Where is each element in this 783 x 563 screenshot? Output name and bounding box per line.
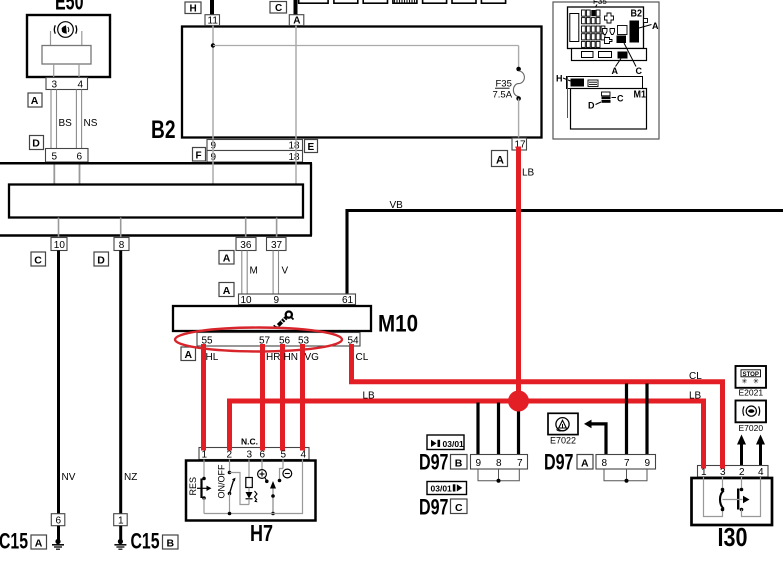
svg-text:61: 61 (342, 295, 354, 306)
black wire to D97B pin 7 (517, 406, 520, 455)
svg-text:NV: NV (62, 472, 76, 483)
connector label A (E50) (28, 93, 42, 107)
component I30 (brake switch relay) (692, 478, 773, 552)
svg-text:A: A (652, 21, 659, 31)
svg-text:6: 6 (260, 450, 266, 461)
pin row 1 2 3 6 5 4 of H7 (199, 448, 309, 461)
connector label A (pins 36/37 lower) (219, 283, 234, 297)
inset: location illustration frame (553, 2, 659, 139)
wire NV (black) (57, 251, 60, 514)
key symbol in M10 (274, 312, 294, 328)
pin row 10 9 61 of M10 (239, 294, 356, 306)
svg-text:9: 9 (274, 295, 280, 306)
svg-text:A: A (581, 457, 589, 469)
svg-text:H: H (556, 74, 563, 84)
horn symbol in E50 (58, 22, 74, 38)
H7 internal: pin1 column + RES switch (188, 460, 212, 514)
pin row 3 4 of E50 (46, 78, 88, 91)
I30 internal contacts (704, 477, 761, 517)
bracket under D97 A (604, 469, 647, 481)
svg-text:A: A (35, 537, 43, 549)
wire NS (double line) (76, 90, 81, 149)
wire to pin 37 (276, 218, 278, 238)
arrow up from I30 pin 2 (737, 435, 746, 467)
validity icon (from 03/01) for D97C (427, 482, 467, 495)
H7 internal: ON/OFF switch (pin 2) (217, 460, 236, 514)
svg-text:1: 1 (118, 516, 124, 527)
svg-text:4: 4 (301, 450, 307, 461)
pin 11 of B2 (205, 15, 220, 27)
internal wire from pin A (295, 26, 297, 141)
svg-text:B2: B2 (151, 116, 176, 144)
svg-text:37: 37 (271, 240, 283, 251)
connector D97 B (419, 450, 528, 475)
top edge connector row (cut off) (299, 0, 506, 3)
svg-text:9: 9 (476, 458, 482, 469)
svg-text:V: V (282, 266, 289, 277)
svg-text:3: 3 (247, 450, 253, 461)
black wire to D97B pin 9 (476, 403, 479, 456)
svg-text:RES: RES (188, 477, 198, 496)
wire LB (red horizontal run) (230, 401, 704, 467)
svg-text:C: C (455, 502, 463, 514)
svg-text:LB: LB (689, 391, 702, 402)
svg-text:H7: H7 (250, 520, 273, 546)
svg-text:18: 18 (289, 152, 301, 163)
svg-text:03/01: 03/01 (431, 484, 453, 494)
svg-text:M10: M10 (378, 311, 418, 338)
svg-text:3: 3 (52, 80, 58, 91)
connector label A (below pin 17) (492, 151, 508, 167)
svg-text:D: D (32, 138, 40, 150)
svg-text:4: 4 (78, 80, 84, 91)
svg-text:M1: M1 (634, 90, 647, 101)
inset: fuse panel B2 (568, 7, 644, 49)
svg-text:ON/OFF: ON/OFF (217, 464, 227, 498)
component M10 (ignition switch) (173, 306, 418, 338)
pin 36 (236, 238, 256, 252)
svg-text:7.5A: 7.5A (493, 90, 513, 101)
wire from pin 5 to junction unit (53, 165, 55, 185)
svg-text:4: 4 (758, 467, 764, 478)
svg-text:A: A (185, 349, 193, 361)
svg-text:E2021: E2021 (739, 387, 764, 397)
svg-text:8: 8 (602, 458, 608, 469)
svg-text:A: A (496, 154, 504, 166)
svg-text:F: F (196, 151, 202, 162)
svg-text:I30: I30 (718, 524, 748, 552)
wire V (double line) (273, 251, 278, 295)
svg-text:HN: HN (284, 352, 298, 363)
svg-text:B: B (167, 537, 175, 549)
inset: M1 lower box (568, 77, 647, 130)
svg-text:1: 1 (202, 450, 208, 461)
svg-text:C15: C15 (131, 529, 160, 554)
connector label B (C15) (163, 535, 179, 549)
svg-text:LB: LB (522, 168, 535, 179)
svg-text:36: 36 (240, 240, 252, 251)
svg-text:D97: D97 (544, 450, 574, 475)
junction band upper bus bar (0, 162, 312, 165)
svg-text:✳: ✳ (742, 378, 748, 386)
component H7 (cruise control switch) (186, 461, 316, 547)
svg-text:10: 10 (241, 295, 253, 306)
svg-text:A: A (612, 66, 619, 76)
H7 internal: minus contact (pin 5) (278, 460, 292, 483)
connector label D (E50) (30, 136, 44, 150)
internal wire to fuse (213, 45, 519, 47)
wire BS (double line) (51, 90, 57, 149)
inset: leader lines to A and C labels (616, 59, 622, 67)
svg-text:D97: D97 (419, 495, 449, 520)
ground C15 A (52, 526, 64, 550)
connector label C (270, 2, 287, 15)
svg-text:7: 7 (624, 458, 630, 469)
svg-text:NS: NS (84, 118, 98, 129)
red wire tips into I30 pin row (704, 464, 723, 469)
wires inside E50 (50, 31, 52, 46)
svg-text:E50: E50 (55, 0, 84, 16)
component B2 (fuse box) (151, 27, 542, 145)
red wire tips into H7 pin row (204, 446, 303, 451)
connector label F (193, 148, 206, 162)
svg-text:2: 2 (739, 467, 745, 478)
connector D97 C (419, 495, 467, 520)
pin 10 (51, 238, 67, 252)
arrow to E7022 (584, 420, 592, 429)
svg-text:HR: HR (266, 352, 280, 363)
inset: side tab (644, 19, 648, 23)
black wire to D97A pin 9 (645, 384, 648, 456)
svg-text:D97: D97 (419, 450, 449, 475)
pin 6 (C15 A) (51, 514, 65, 527)
connector label E (305, 140, 318, 154)
svg-text:6: 6 (56, 516, 62, 527)
inset: M1 upper box (567, 77, 643, 89)
inset: fuse grid (582, 10, 605, 47)
svg-text:F35: F35 (593, 0, 607, 6)
pin 37 (267, 238, 287, 252)
svg-text:LB: LB (363, 391, 376, 402)
pin row 1 3 2 4 of I30 (698, 466, 769, 479)
svg-text:B2: B2 (631, 9, 643, 20)
svg-text:8: 8 (496, 458, 502, 469)
connector label A (C15) (31, 535, 47, 549)
junction band right edge (310, 163, 312, 235)
svg-text:B: B (455, 457, 463, 469)
junction unit body (9, 185, 303, 218)
wire HL (red, M10 pin 55 to H7 pin 1) (201, 344, 206, 450)
H7 internal: resistor + LED (pin 3) (230, 460, 258, 505)
svg-text:C15: C15 (0, 529, 28, 554)
svg-text:A: A (223, 253, 231, 265)
svg-text:BS: BS (59, 118, 73, 129)
wire from pin 6 to junction unit (79, 165, 81, 185)
wire stub H (210, 0, 214, 15)
inset: C label (M1) (612, 94, 625, 104)
wire HN (red, M10 pin 56 to H7 pin 5) (280, 344, 285, 450)
pin 8 (114, 238, 129, 252)
wire LB (red, from B2 pin 17 down to junction) (516, 147, 521, 402)
wire to pin 10 (58, 218, 60, 238)
svg-text:11: 11 (208, 16, 219, 27)
svg-text:C: C (617, 94, 624, 104)
pin A of B2 (289, 15, 304, 27)
svg-text:E: E (308, 142, 315, 153)
inset: relay shapes (603, 13, 628, 44)
inset: label F35 pointer (593, 0, 607, 10)
symbol E2021 (stop lights) (736, 366, 767, 397)
wire HR (red, M10 pin 57 to H7 pin 6) (260, 344, 265, 450)
svg-text:A: A (293, 16, 300, 27)
internal wire from pin 11 (212, 26, 214, 141)
symbol E7020 (brake warning) (736, 401, 767, 434)
svg-text:C: C (275, 3, 282, 14)
svg-text:03/01: 03/01 (443, 439, 465, 449)
wire to pin 8 (120, 218, 122, 238)
svg-text:CL: CL (689, 371, 702, 382)
svg-text:A: A (223, 285, 231, 297)
svg-text:8: 8 (119, 240, 125, 251)
svg-text:M: M (250, 266, 258, 277)
component E7022 symbol (548, 413, 578, 445)
svg-text:HL: HL (206, 352, 219, 363)
inset: H label (556, 74, 571, 84)
inset: connector C (black) (617, 36, 627, 44)
svg-text:1: 1 (701, 467, 707, 478)
svg-text:10: 10 (54, 240, 66, 251)
red highlight ellipse on M10 pins (175, 328, 342, 352)
pin 1 (C15 B) (114, 514, 128, 527)
svg-text:3: 3 (720, 467, 726, 478)
wire VG (red, M10 pin 53 to H7 pin 4) (300, 344, 305, 450)
wire from B2 pin 18 to junction unit (295, 140, 297, 185)
black wire to D97B pin 8 (497, 403, 500, 456)
wire stub C (294, 0, 298, 15)
wire from B2 pin 9 to junction unit (212, 140, 214, 185)
inset: leader line to A (right) (639, 25, 652, 29)
ground C15 B (114, 526, 126, 550)
svg-text:A: A (31, 95, 39, 107)
connector label C (pin 10) (31, 252, 46, 266)
svg-text:D: D (588, 101, 595, 111)
inset: fuse F35 highlighted (black) (591, 10, 596, 16)
svg-text:5: 5 (281, 450, 287, 461)
pin rows 9/18 of B2 (207, 140, 303, 164)
wire NZ (black) (119, 251, 122, 514)
svg-text:STOP: STOP (743, 371, 760, 378)
junction band lower bus bar (0, 234, 312, 237)
H7 internal: plus contact (pin 6) (258, 460, 269, 484)
svg-text:C: C (34, 254, 42, 266)
connector label D (pin 8) (94, 252, 109, 266)
svg-text:E7022: E7022 (550, 436, 576, 446)
internal junction dot B2 (211, 43, 215, 47)
inset: lower flange of fuse panel (572, 49, 647, 61)
connector label A (M10) (181, 347, 196, 361)
svg-text:6: 6 (77, 152, 83, 163)
hatched connector in top row (395, 0, 415, 3)
svg-text:H: H (190, 4, 197, 15)
svg-text:E7020: E7020 (739, 423, 764, 433)
wire M (double line) (242, 251, 247, 295)
black wire to D97A pin 8 (L-shape from E7022 arrow) (590, 424, 606, 455)
component E50 (horn) (27, 0, 110, 78)
pin row 55 57 56 53 54 of M10 (197, 333, 360, 347)
red junction dot (508, 391, 529, 412)
wire CL (red, M10 pin 54 to I30 pin 3) (352, 344, 723, 467)
arrow up from I30 pin 4 (756, 435, 765, 467)
connector D97 A (544, 450, 656, 475)
svg-text:VG: VG (305, 352, 320, 363)
svg-text:D: D (97, 254, 105, 266)
svg-text:2: 2 (227, 450, 233, 461)
inset: D label (M1) (588, 101, 601, 111)
validity icon (until 03/01) for D97B (427, 435, 464, 450)
wire to pin 36 (245, 218, 247, 238)
H7 internal: bottom rail to pin 4 (204, 460, 303, 516)
svg-text:18: 18 (289, 141, 301, 152)
svg-text:9: 9 (645, 458, 651, 469)
inset: M1 connector stack (602, 92, 611, 103)
svg-text:NZ: NZ (124, 472, 137, 483)
bracket under D97 B (478, 469, 519, 481)
wire VB (black) (347, 211, 783, 295)
svg-text:✳: ✳ (753, 378, 759, 386)
pin row 5 6 (46, 149, 89, 163)
H7 internal: selector arrow column (270, 481, 276, 515)
svg-text:VB: VB (390, 200, 404, 211)
inset: connector A (black tall) (630, 21, 640, 43)
pin 17 of B2 (512, 138, 527, 151)
svg-text:5: 5 (52, 152, 58, 163)
connector label H (185, 2, 201, 15)
connector label A (pins 36/37 upper) (219, 251, 234, 265)
svg-text:7: 7 (517, 458, 523, 469)
black wire to D97A pin 7 (625, 384, 628, 456)
svg-text:C: C (636, 66, 643, 76)
fuse F35 7.5A (493, 46, 525, 149)
svg-text:CL: CL (356, 352, 369, 363)
svg-text:N.C.: N.C. (241, 437, 258, 447)
